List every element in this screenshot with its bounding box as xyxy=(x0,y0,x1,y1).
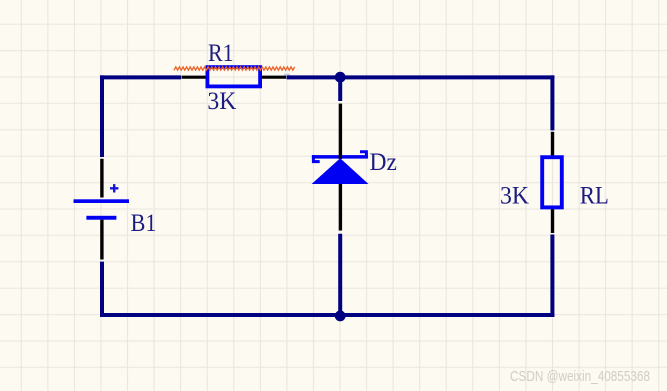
svg-text:B1: B1 xyxy=(131,210,157,237)
battery B1 positive plate xyxy=(74,199,130,203)
junction node top xyxy=(335,72,346,83)
wire bottom horizontal xyxy=(100,313,554,317)
pin battery top lead xyxy=(100,159,103,198)
wire top right of R1 to top-right corner xyxy=(287,75,555,79)
wire top-left horizontal xyxy=(100,75,181,79)
label RL designator xyxy=(580,183,609,210)
wire middle stub below top junction xyxy=(338,77,342,101)
wire middle lower xyxy=(338,234,342,315)
diode Dz cathode bar xyxy=(312,155,368,159)
pin R1 right lead xyxy=(262,76,286,79)
pin RL bottom lead xyxy=(551,209,554,233)
diode Dz left hook xyxy=(312,155,320,162)
wire left vertical lower xyxy=(100,262,104,317)
pin RL top lead xyxy=(551,132,554,156)
svg-text:3K: 3K xyxy=(500,183,529,210)
label B1 xyxy=(131,210,157,237)
pin Dz anode lead xyxy=(339,184,342,231)
watermark CSDN xyxy=(510,368,650,385)
error squiggle over R1 xyxy=(174,67,295,70)
label Dz xyxy=(370,149,397,176)
pin R1 left lead xyxy=(182,76,207,79)
label RL value 3K xyxy=(500,183,529,210)
battery B1 negative plate xyxy=(86,216,116,220)
wire right vertical upper xyxy=(550,75,554,130)
label R1 value 3K xyxy=(207,88,236,115)
diode Dz right hook xyxy=(360,152,368,159)
battery B1 plus sign xyxy=(110,184,118,192)
svg-text:CSDN @weixin_40855368: CSDN @weixin_40855368 xyxy=(510,368,650,385)
svg-text:RL: RL xyxy=(580,183,609,210)
svg-text:3K: 3K xyxy=(207,88,236,115)
wire left vertical upper xyxy=(100,75,104,157)
svg-text:R1: R1 xyxy=(208,40,234,67)
diode Dz anode triangle xyxy=(312,158,369,184)
svg-text:Dz: Dz xyxy=(370,149,397,176)
pin Dz cathode lead xyxy=(339,104,342,159)
label R1 designator xyxy=(208,40,234,67)
pin battery bottom lead xyxy=(100,220,103,260)
junction node bottom xyxy=(335,311,346,322)
resistor R1 xyxy=(207,67,260,86)
resistor RL xyxy=(542,157,562,207)
wire right vertical lower xyxy=(550,235,554,318)
wire end marker light blue xyxy=(284,74,290,76)
